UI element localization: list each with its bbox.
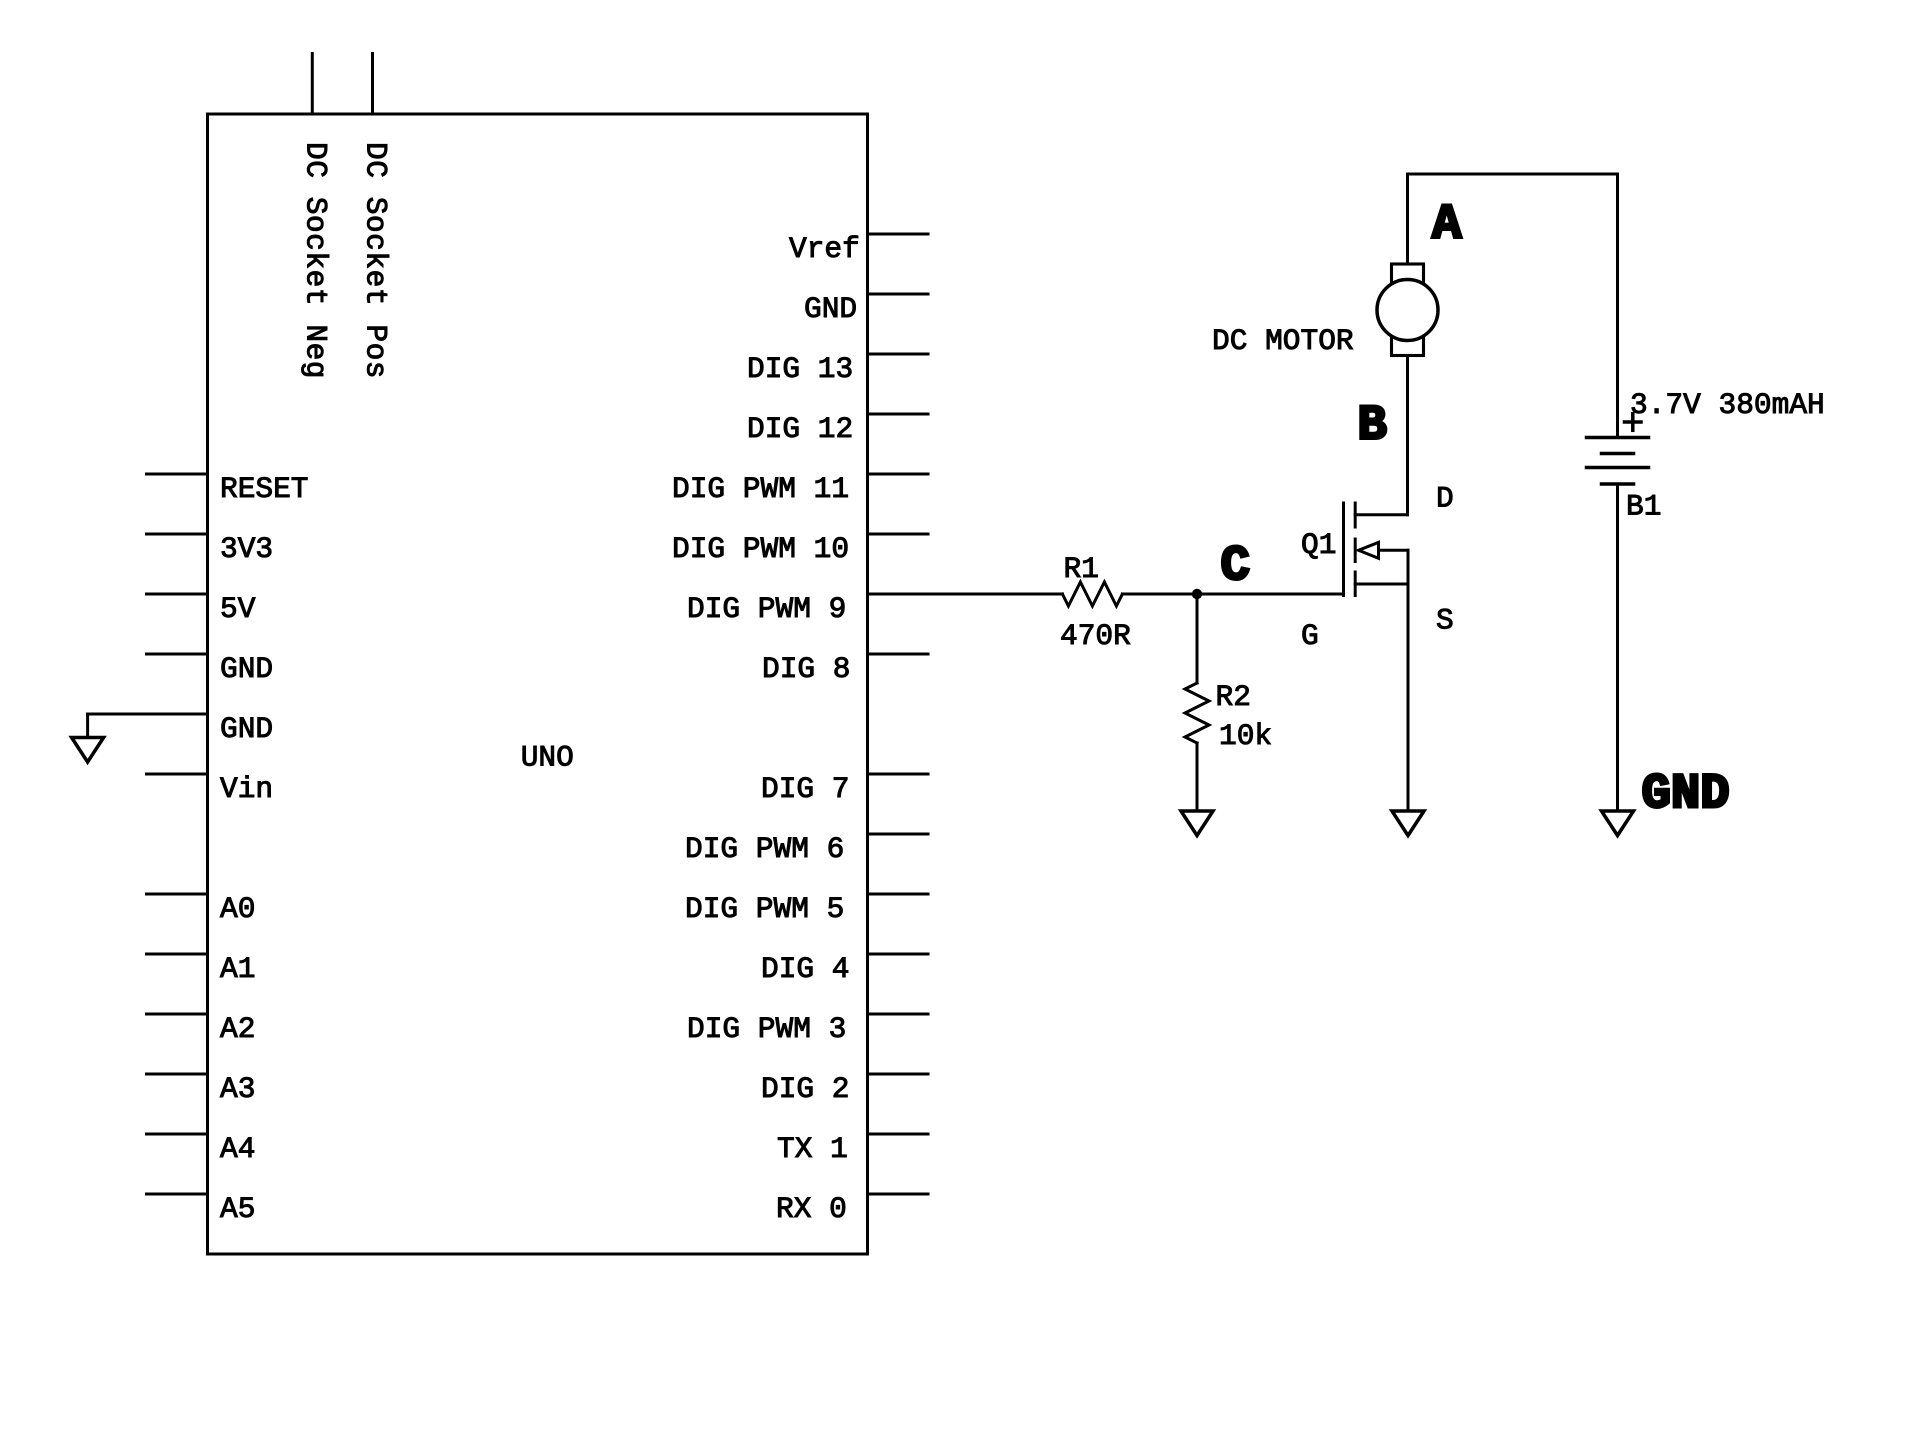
svg-text:A1: A1 [220, 952, 255, 986]
svg-text:DIG PWM 10: DIG PWM 10 [672, 532, 849, 566]
svg-text:A: A [1432, 197, 1462, 253]
svg-text:DIG PWM 9: DIG PWM 9 [687, 592, 846, 626]
svg-text:3V3: 3V3 [220, 532, 273, 566]
svg-text:Vref: Vref [789, 232, 860, 266]
svg-text:DC MOTOR: DC MOTOR [1212, 324, 1354, 358]
svg-text:B1: B1 [1626, 490, 1661, 524]
svg-text:DIG 12: DIG 12 [747, 412, 853, 446]
svg-text:DIG 8: DIG 8 [762, 652, 851, 686]
svg-text:DIG PWM 6: DIG PWM 6 [685, 832, 844, 866]
svg-text:B: B [1358, 398, 1387, 454]
svg-text:10k: 10k [1219, 719, 1272, 753]
svg-text:Vin: Vin [220, 772, 273, 806]
svg-text:DIG PWM 5: DIG PWM 5 [685, 892, 844, 926]
svg-text:RESET: RESET [220, 472, 309, 506]
svg-text:A4: A4 [220, 1132, 255, 1166]
svg-text:GND: GND [1642, 766, 1730, 822]
svg-text:5V: 5V [220, 592, 256, 626]
svg-text:DIG PWM 3: DIG PWM 3 [687, 1012, 846, 1046]
svg-text:S: S [1436, 604, 1454, 638]
svg-text:DIG 4: DIG 4 [761, 952, 850, 986]
svg-text:UNO: UNO [521, 741, 574, 775]
svg-text:Q1: Q1 [1301, 528, 1336, 562]
svg-text:RX 0: RX 0 [776, 1192, 847, 1226]
svg-text:R1: R1 [1064, 552, 1099, 586]
svg-text:3.7V 380mAH: 3.7V 380mAH [1630, 388, 1825, 422]
svg-text:DIG PWM 11: DIG PWM 11 [672, 472, 849, 506]
svg-text:470R: 470R [1060, 619, 1131, 653]
svg-text:A3: A3 [220, 1072, 255, 1106]
svg-text:D: D [1436, 482, 1454, 516]
svg-text:A0: A0 [220, 892, 255, 926]
svg-text:DIG 13: DIG 13 [747, 352, 853, 386]
svg-text:GND: GND [220, 652, 273, 686]
svg-text:A5: A5 [220, 1192, 255, 1226]
svg-text:C: C [1221, 538, 1250, 594]
svg-text:A2: A2 [220, 1012, 255, 1046]
svg-text:DIG 2: DIG 2 [761, 1072, 850, 1106]
svg-text:DC Socket Pos: DC Socket Pos [359, 142, 393, 379]
svg-text:TX 1: TX 1 [777, 1132, 848, 1166]
svg-text:GND: GND [804, 292, 857, 326]
svg-text:G: G [1301, 619, 1319, 653]
svg-text:R2: R2 [1216, 680, 1251, 714]
svg-text:DIG 7: DIG 7 [761, 772, 850, 806]
svg-text:DC Socket Neg: DC Socket Neg [299, 142, 333, 379]
svg-text:GND: GND [220, 712, 273, 746]
